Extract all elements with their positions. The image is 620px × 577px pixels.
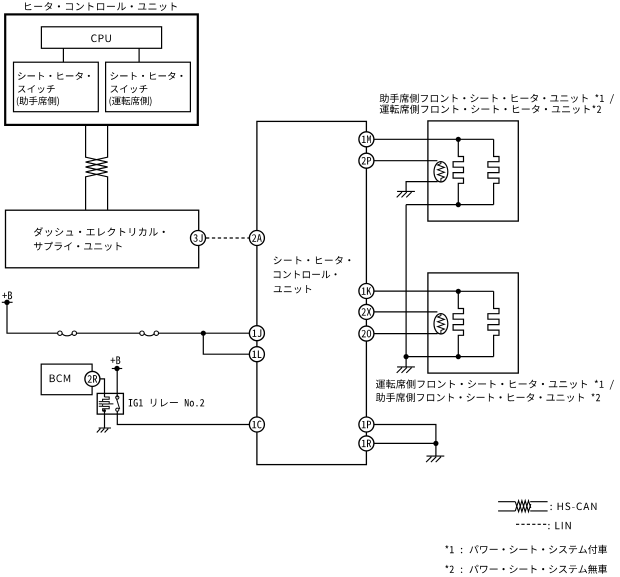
connector pin 2A [249,231,264,246]
label front seat heater unit lower line1 [376,379,614,389]
label CPU [91,34,111,42]
wire fuse 1 to fuse 2 [77,332,140,334]
seat heater control unit box [257,121,367,464]
ground thermistor upper [397,191,415,197]
label IG1 relay No.2 [129,399,205,407]
connector pin 1J [249,326,264,341]
label front seat heater unit upper line1 [380,94,614,104]
heater unit upper (passenger *1 / driver *2) [406,121,518,221]
CPU box [41,27,161,49]
wire thermistor upper to ground [406,182,438,192]
wire twisted pair line B [86,126,108,210]
label front seat heater unit lower line2 [376,393,600,402]
wire 1R to ground junction [374,442,436,444]
heater unit lower (driver *1 / passenger *2) [406,273,518,373]
connector pin 2O [359,326,374,341]
wire fuse 2 to 1J [159,332,250,334]
wire LIN dashed 3J to 2A [206,237,250,239]
seat heater switch box (passenger) [14,62,99,111]
label heater control unit title [25,2,177,11]
connector pin 2R [85,371,100,386]
label seat heater switch driver line3 [109,96,151,106]
wire CPU to driver switch [138,48,140,62]
wire junction to ground right [435,443,437,456]
label seat heater switch driver line1 [110,72,182,80]
connector pin 2P [359,153,374,168]
relay coil [99,397,114,412]
seat heater switch box (driver) [106,62,191,111]
connector pin 1P [359,417,374,432]
node 1P 1R ground junction [433,441,438,446]
label HS-CAN legend [550,503,596,511]
legend LIN dashed line [516,523,547,525]
fuse F1 [58,331,77,336]
label BCM [50,374,71,382]
+B relay node dot [112,366,122,371]
fuse F2 [140,331,159,336]
label dash electrical supply unit line2 [34,242,122,251]
wire 1M to heater unit upper [374,138,459,140]
wire junction to ground lower [405,357,407,367]
ground relay coil [97,428,111,433]
label +B relay feed [111,356,121,364]
legend HS-CAN twisted pair symbol [498,501,547,512]
label seat heater control unit line1 [274,256,351,264]
label front seat heater unit upper line2 [380,105,601,114]
heater control unit box [5,14,198,125]
wire twisted pair line A [86,126,108,210]
wire 2X to thermistor lower [374,311,438,313]
label seat heater control unit line3 [274,285,312,293]
label seat heater switch passenger line1 [18,72,90,80]
label seat heater switch driver line2 [110,85,147,93]
label seat heater control unit line2 [274,270,337,278]
ground control unit right [426,456,444,462]
wire 2P to thermistor upper [374,160,438,162]
connector pin 2X [359,304,374,319]
note *2 power seat system not equipped [445,565,607,574]
connector pin 3J [191,231,206,246]
wire +B to fuse 1 [7,302,58,333]
wire 1P to ground junction [374,425,436,444]
wire +B to relay contact [116,369,118,398]
label dash electrical supply unit line1 [34,227,165,236]
node junction feed split [201,331,206,336]
label seat heater switch passenger line2 [18,85,55,93]
connector pin 1K [359,284,374,299]
label LIN legend [548,522,571,529]
wire 1K to heater unit lower [374,290,459,292]
relay contact [116,396,120,411]
wire heater return vertical [405,205,407,357]
wire 2O to thermistor lower [374,333,438,335]
label seat heater switch passenger line3 [17,96,59,106]
connector pin 1C [249,417,264,432]
+B node dot [2,300,13,305]
BCM box [41,364,92,395]
connector pin 1L [249,347,264,362]
wire relay contact to 1C [117,411,250,424]
connector pin 1M [359,132,374,147]
wire relay coil to ground [104,411,106,428]
wire CPU to passenger switch [62,48,64,62]
connector pin 1R [359,436,374,451]
dash electrical supply unit box [6,210,199,268]
wire 2R to relay coil [100,379,105,397]
relay IG1 No.2 box [97,393,123,414]
node heater return ground junction [404,354,409,359]
wire junction to 1L [203,333,250,354]
ground heater units [397,367,415,373]
label +B battery feed [2,292,12,300]
note *1 power seat system equipped [445,545,607,554]
